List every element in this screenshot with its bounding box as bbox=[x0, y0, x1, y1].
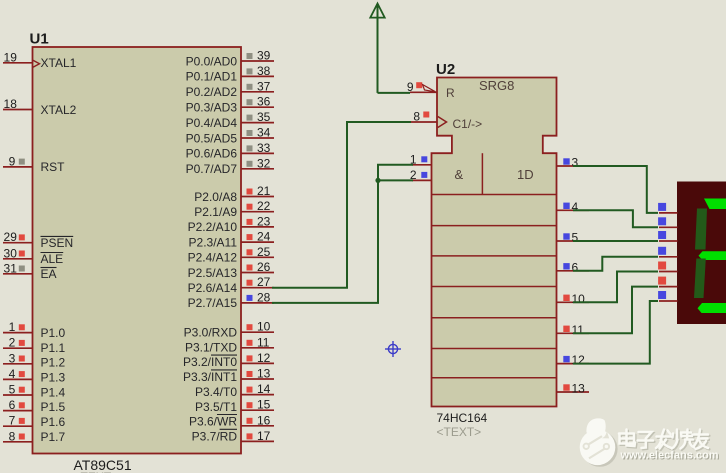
U1 pin 28 (P2.7/A15) bbox=[188, 290, 274, 310]
svg-text:74HC164: 74HC164 bbox=[437, 411, 488, 425]
U1 pin 7 (P1.6) bbox=[3, 414, 66, 429]
svg-text:P2.5/A13: P2.5/A13 bbox=[188, 266, 238, 280]
svg-text:1D: 1D bbox=[517, 167, 534, 182]
U1 pin 39 (P0.0/AD0) bbox=[186, 49, 274, 69]
U2 TEXT placeholder bbox=[437, 425, 482, 439]
display pin 1 bbox=[658, 203, 677, 213]
U2 pin 13 bbox=[557, 382, 590, 396]
svg-text:19: 19 bbox=[4, 50, 18, 64]
display pin 5 bbox=[658, 262, 677, 272]
svg-text:P2.3/A11: P2.3/A11 bbox=[189, 235, 238, 249]
watermark logo circle bbox=[580, 418, 618, 466]
svg-text:EA: EA bbox=[41, 267, 57, 281]
svg-text:24: 24 bbox=[257, 230, 271, 244]
svg-text:6: 6 bbox=[572, 260, 579, 274]
svg-text:P1.7: P1.7 bbox=[41, 430, 66, 444]
svg-text:33: 33 bbox=[257, 141, 271, 155]
svg-text:35: 35 bbox=[257, 110, 271, 124]
U2 pin 11 bbox=[557, 323, 590, 337]
svg-text:P3.3/INT1: P3.3/INT1 bbox=[183, 370, 237, 384]
wire U2 QD to display segment bbox=[573, 257, 658, 271]
U2 pin 6 bbox=[557, 260, 590, 274]
svg-text:23: 23 bbox=[257, 214, 271, 228]
svg-text:P2.6/A14: P2.6/A14 bbox=[188, 281, 238, 295]
U1 pin 36 (P0.3/AD3) bbox=[186, 95, 274, 115]
svg-text:P1.5: P1.5 bbox=[41, 400, 66, 414]
svg-text:18: 18 bbox=[4, 97, 18, 111]
svg-text:PSEN: PSEN bbox=[41, 236, 74, 250]
U2 pin 9 (R) bbox=[407, 80, 437, 94]
svg-text:1: 1 bbox=[9, 320, 16, 334]
wire P2.7/A15 (pin28) to U2 data pins 1,2 bbox=[272, 165, 413, 303]
display segment a (lit) bbox=[704, 199, 726, 210]
U1 pin 21 (P2.0/A8) bbox=[194, 184, 274, 204]
U1 pin 14 (P3.4/T0) bbox=[195, 382, 274, 399]
U2 pin 12 bbox=[557, 353, 590, 367]
svg-text:39: 39 bbox=[257, 49, 271, 63]
svg-text:5: 5 bbox=[9, 383, 16, 397]
U2 AND gate label bbox=[455, 167, 464, 182]
svg-text:P1.4: P1.4 bbox=[41, 385, 66, 399]
svg-text:ALE: ALE bbox=[41, 252, 64, 266]
svg-text:XTAL1: XTAL1 bbox=[41, 56, 77, 70]
U1 pin 17 (P3.7/RD) bbox=[192, 429, 274, 444]
U1 pin 11 (P3.1/TXD) bbox=[185, 335, 274, 354]
svg-text:U2: U2 bbox=[436, 61, 455, 78]
svg-text:P0.3/AD3: P0.3/AD3 bbox=[186, 101, 238, 115]
U1 pin 4 (P1.3) bbox=[3, 367, 66, 385]
svg-text:13: 13 bbox=[257, 367, 271, 381]
svg-text:P1.0: P1.0 bbox=[41, 326, 66, 340]
svg-text:2: 2 bbox=[9, 336, 16, 350]
svg-text:R: R bbox=[446, 86, 455, 100]
svg-text:P3.0/RXD: P3.0/RXD bbox=[184, 326, 238, 340]
svg-text:<TEXT>: <TEXT> bbox=[437, 425, 482, 439]
svg-text:15: 15 bbox=[257, 398, 271, 412]
power VCC arrow bbox=[370, 4, 384, 93]
svg-text:P3.5/T1: P3.5/T1 bbox=[195, 400, 237, 414]
svg-text:&: & bbox=[455, 167, 464, 182]
U1 pin 33 (P0.6/AD6) bbox=[186, 141, 274, 161]
svg-text:C1/->: C1/-> bbox=[453, 117, 483, 131]
U1 pin 9 (RST) bbox=[3, 154, 65, 174]
U2 pin 8 (C1 clock) bbox=[410, 110, 447, 128]
svg-text:P2.1/A9: P2.1/A9 bbox=[194, 205, 237, 219]
display segment f (unlit) bbox=[695, 209, 707, 250]
svg-text:7: 7 bbox=[9, 414, 16, 428]
watermark CJK text dianzifashaoyou bbox=[619, 430, 709, 451]
svg-text:14: 14 bbox=[257, 382, 271, 396]
svg-text:29: 29 bbox=[4, 230, 18, 244]
U1 pin 24 (P2.3/A11) bbox=[189, 230, 274, 250]
U1 pin 6 (P1.5) bbox=[3, 398, 66, 414]
svg-text:9: 9 bbox=[407, 80, 414, 94]
U2 pin 2 (B) bbox=[410, 168, 432, 182]
svg-text:30: 30 bbox=[4, 246, 18, 260]
U2 1D cell label bbox=[517, 167, 534, 182]
U1 pin 10 (P3.0/RXD) bbox=[184, 320, 274, 340]
svg-text:P2.0/A8: P2.0/A8 bbox=[194, 190, 237, 204]
svg-text:12: 12 bbox=[572, 353, 586, 367]
watermark url text bbox=[620, 450, 720, 463]
svg-text:P0.0/AD0: P0.0/AD0 bbox=[186, 54, 238, 68]
svg-text:P0.1/AD1: P0.1/AD1 bbox=[186, 70, 238, 84]
U2 register cell dividers bbox=[432, 153, 557, 378]
display pin 3 bbox=[658, 231, 677, 241]
svg-text:P1.1: P1.1 bbox=[41, 341, 66, 355]
svg-text:6: 6 bbox=[9, 398, 16, 412]
U1 pin 19 (XTAL1) bbox=[3, 50, 77, 70]
svg-text:RST: RST bbox=[41, 160, 66, 174]
svg-text:38: 38 bbox=[257, 64, 271, 78]
U1 pin 18 (XTAL2) bbox=[3, 97, 77, 117]
svg-text:P2.7/A15: P2.7/A15 bbox=[188, 296, 238, 310]
display segment g (lit) bbox=[699, 251, 726, 260]
U1 pin 12 (P3.2/INT0) bbox=[183, 351, 274, 369]
svg-text:26: 26 bbox=[257, 260, 271, 274]
wire U2 QB to display segment bbox=[573, 210, 658, 227]
svg-text:P1.3: P1.3 bbox=[41, 371, 66, 385]
svg-text:11: 11 bbox=[257, 335, 270, 349]
svg-text:9: 9 bbox=[9, 154, 16, 168]
svg-text:4: 4 bbox=[572, 200, 579, 214]
svg-text:21: 21 bbox=[257, 184, 271, 198]
U2 pin 5 bbox=[557, 231, 590, 245]
U1 pin 35 (P0.4/AD4) bbox=[186, 110, 274, 130]
op area U1 body bbox=[33, 47, 242, 454]
svg-text:10: 10 bbox=[572, 292, 586, 306]
svg-text:P2.4/A12: P2.4/A12 bbox=[188, 251, 238, 265]
svg-text:27: 27 bbox=[257, 275, 271, 289]
svg-text:P3.6/WR: P3.6/WR bbox=[189, 415, 237, 429]
svg-text:U1: U1 bbox=[30, 31, 49, 48]
svg-text:P0.7/AD7: P0.7/AD7 bbox=[186, 162, 238, 176]
svg-text:P3.7/RD: P3.7/RD bbox=[192, 429, 238, 443]
U1 pin 30 (ALE) bbox=[3, 246, 63, 266]
wire U2 QA to display segment bbox=[573, 166, 658, 213]
U1 pin 34 (P0.5/AD5) bbox=[186, 126, 274, 146]
U1 pin 5 (P1.4) bbox=[3, 383, 66, 400]
svg-text:37: 37 bbox=[257, 79, 271, 93]
U2 part value 74HC164 bbox=[437, 411, 488, 425]
display segment e (unlit) bbox=[694, 259, 706, 299]
svg-text:3: 3 bbox=[572, 156, 579, 170]
U1 pin 31 (EA) bbox=[3, 261, 57, 281]
U1 pin 29 (PSEN) bbox=[3, 230, 73, 250]
7-segment display body bbox=[677, 182, 726, 325]
display segment d (lit) bbox=[698, 303, 726, 313]
U1 part value AT89C51 bbox=[74, 457, 132, 473]
svg-text:13: 13 bbox=[572, 382, 586, 396]
svg-text:P2.2/A10: P2.2/A10 bbox=[188, 220, 238, 234]
svg-text:11: 11 bbox=[572, 323, 585, 337]
svg-text:12: 12 bbox=[257, 351, 271, 365]
U2 pin 10 bbox=[557, 292, 590, 306]
svg-text:www.elecfans.com: www.elecfans.com bbox=[620, 450, 719, 462]
U2 designator label bbox=[436, 61, 455, 78]
wire U2 QG to display segment bbox=[573, 301, 658, 364]
U1 pin 32 (P0.7/AD7) bbox=[186, 156, 274, 176]
svg-text:P0.6/AD6: P0.6/AD6 bbox=[186, 147, 238, 161]
svg-text:28: 28 bbox=[257, 290, 271, 304]
display pin 6 bbox=[658, 277, 677, 287]
wire P2.6/A14 (pin27) to U2 CLK pin 8 bbox=[272, 122, 411, 288]
wire U2 QE to display segment bbox=[573, 272, 658, 303]
U1 designator label bbox=[30, 31, 49, 48]
svg-text:SRG8: SRG8 bbox=[479, 78, 514, 93]
U1 pin 37 (P0.2/AD2) bbox=[186, 79, 274, 99]
U1 pin 27 (P2.6/A14) bbox=[188, 275, 274, 295]
svg-text:P1.2: P1.2 bbox=[41, 356, 66, 370]
svg-text:22: 22 bbox=[257, 199, 271, 213]
wire U2 QC to display segment bbox=[573, 240, 658, 242]
svg-text:34: 34 bbox=[257, 126, 271, 140]
U2 pin 3 bbox=[557, 156, 590, 170]
U2 C1 clock label bbox=[453, 117, 483, 131]
wire VCC to U2 pin 9 bbox=[378, 92, 411, 94]
svg-text:32: 32 bbox=[257, 156, 271, 170]
U1 pin 13 (P3.3/INT1) bbox=[183, 367, 274, 385]
U2 pin 1 (A) bbox=[410, 152, 432, 166]
IC U2 74HC164 body outline bbox=[432, 78, 557, 407]
svg-text:36: 36 bbox=[257, 95, 271, 109]
svg-text:8: 8 bbox=[413, 110, 420, 124]
U1 pin 38 (P0.1/AD1) bbox=[186, 64, 274, 84]
U1 pin 8 (P1.7) bbox=[3, 429, 66, 444]
svg-text:P0.2/AD2: P0.2/AD2 bbox=[186, 85, 238, 99]
U1 pin 1 (P1.0) bbox=[3, 320, 66, 340]
U1 pin 15 (P3.5/T1) bbox=[195, 398, 274, 414]
U2 pin 4 bbox=[557, 200, 590, 214]
U1 pin 23 (P2.2/A10) bbox=[188, 214, 274, 234]
svg-text:17: 17 bbox=[257, 429, 271, 443]
U1 pin 22 (P2.1/A9) bbox=[194, 199, 274, 219]
U2 SRG8 label bbox=[479, 78, 514, 93]
svg-text:10: 10 bbox=[257, 320, 271, 334]
junction node at U2 pin 2 branch bbox=[375, 178, 380, 183]
svg-text:31: 31 bbox=[4, 261, 18, 275]
svg-text:P3.2/INT0: P3.2/INT0 bbox=[183, 355, 237, 369]
U1 pin 2 (P1.1) bbox=[3, 336, 66, 355]
U1 pin 3 (P1.2) bbox=[3, 351, 66, 369]
svg-text:8: 8 bbox=[9, 429, 16, 443]
U1 pin 25 (P2.4/A12) bbox=[188, 245, 274, 265]
U1 pin 26 (P2.5/A13) bbox=[188, 260, 274, 280]
origin marker crosshair bbox=[385, 341, 401, 357]
U1 pin 16 (P3.6/WR) bbox=[189, 413, 274, 428]
svg-text:3: 3 bbox=[9, 351, 16, 365]
display pin 2 bbox=[658, 217, 677, 227]
U1 XTAL1 input marker bbox=[33, 60, 40, 67]
svg-text:XTAL2: XTAL2 bbox=[41, 103, 77, 117]
svg-text:P3.4/T0: P3.4/T0 bbox=[195, 385, 237, 399]
svg-text:P0.4/AD4: P0.4/AD4 bbox=[186, 116, 238, 130]
svg-text:16: 16 bbox=[257, 413, 271, 427]
svg-text:5: 5 bbox=[572, 231, 579, 245]
U2 R input label bbox=[446, 86, 455, 100]
display pin 7 bbox=[658, 291, 677, 301]
svg-text:P0.5/AD5: P0.5/AD5 bbox=[186, 131, 238, 145]
svg-text:P3.1/TXD: P3.1/TXD bbox=[185, 340, 237, 354]
svg-text:25: 25 bbox=[257, 245, 271, 259]
svg-text:4: 4 bbox=[9, 367, 16, 381]
display pin 4 bbox=[658, 247, 677, 257]
svg-text:P1.6: P1.6 bbox=[41, 415, 66, 429]
wire U2 QF to display segment bbox=[573, 287, 658, 334]
